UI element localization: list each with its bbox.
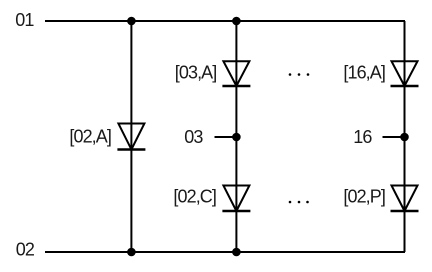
wire column 2 vertical [235,21,237,252]
svg-text:[02,P]: [02,P] [343,186,385,206]
svg-text:02: 02 [16,240,35,260]
svg-text:03: 03 [184,127,203,147]
junction: top bus / column 1 [127,17,136,26]
diode [16,A] [391,61,419,86]
ellipsis top row [289,73,310,76]
junction: bottom bus / column 2 [232,248,241,257]
diode [02,A] [117,124,145,150]
svg-text:[02,A]: [02,A] [69,126,111,146]
node 03 junction [232,133,241,142]
wire bottom bus (net 02) [45,251,405,253]
svg-text:[02,C]: [02,C] [173,186,216,206]
svg-text:16: 16 [353,127,372,147]
ellipsis bottom row [289,201,309,204]
svg-text:[16,A]: [16,A] [343,62,385,82]
diode [02,P] [391,186,419,212]
wire top bus (net 01) [45,20,405,22]
diode [02,C] [222,186,250,212]
wire column 3 vertical [404,21,406,252]
node 16 junction [400,133,409,142]
node 16 stub wire [383,136,405,138]
junction: bottom bus / column 1 [127,248,136,257]
diode [03,A] [222,61,250,86]
svg-text:[03,A]: [03,A] [175,62,217,82]
wire column 1 vertical [130,21,132,252]
junction: top bus / column 2 [232,17,241,26]
node 03 stub wire [215,136,237,138]
svg-text:01: 01 [15,10,34,30]
